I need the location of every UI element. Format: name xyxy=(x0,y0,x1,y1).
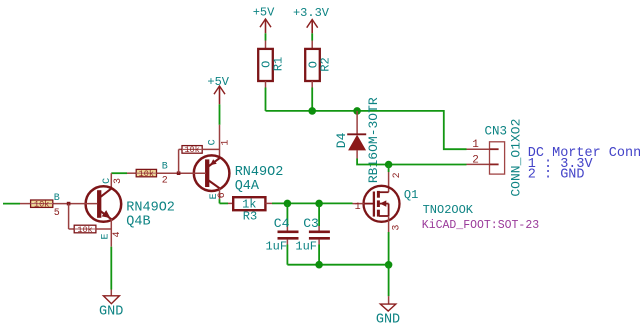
wire base junction up to internal 10k xyxy=(178,149,180,173)
svg-text:1uF: 1uF xyxy=(295,240,317,254)
CN3 pin 2 pad mark xyxy=(490,163,499,165)
junction Q1 source / cap bottom rail xyxy=(385,261,393,269)
CN3 pin 1 lead xyxy=(467,148,490,150)
svg-text:1: 1 xyxy=(472,139,479,151)
power flag +3.3V (above R2) xyxy=(293,6,330,33)
Q4B collector diagonal xyxy=(100,189,112,198)
svg-text:+5V: +5V xyxy=(253,6,275,20)
resistor R2 (value 0) xyxy=(305,49,333,81)
svg-text:R3: R3 xyxy=(243,209,257,223)
Q1 drain internal link xyxy=(379,191,389,193)
Q4A base lead xyxy=(157,172,207,174)
svg-text:3: 3 xyxy=(391,225,402,231)
svg-text:Q4A: Q4A xyxy=(235,179,260,194)
svg-text:2: 2 xyxy=(162,176,168,187)
junction C4 top / gate net xyxy=(284,200,292,208)
ground symbol GND (under Q4B) xyxy=(99,296,123,320)
diode D4 (RB160M-30TR schottky) xyxy=(334,97,381,183)
C3 top pin wire xyxy=(318,203,320,226)
wire +3.3V flag to R2 pin 1 xyxy=(311,33,313,49)
svg-text:1uF: 1uF xyxy=(265,240,287,254)
svg-text:TNO2OOK: TNO2OOK xyxy=(423,203,474,217)
svg-text:1: 1 xyxy=(355,202,361,213)
wire R2 pin 2 down to top rail xyxy=(311,81,313,111)
Q4B body circle xyxy=(86,186,122,222)
svg-text:C: C xyxy=(102,178,113,184)
wire input net at left edge xyxy=(3,203,20,205)
resistor 10k highlighted (Q4A base series) xyxy=(127,169,157,179)
C4 bottom pin wire xyxy=(286,240,288,245)
transistor Q1 (TN0200K N-MOSFET) xyxy=(353,165,540,233)
wire Q1 source to cap rail xyxy=(388,232,390,265)
svg-text:GND: GND xyxy=(376,312,400,327)
svg-text:2: 2 xyxy=(392,172,403,178)
svg-text:5: 5 xyxy=(54,208,60,219)
wire Q1 source junction to GND xyxy=(388,265,390,304)
C4 top pin wire xyxy=(286,203,288,226)
Q4B base bar xyxy=(97,190,101,218)
Q4A upper diagonal with arrow xyxy=(208,158,220,167)
CN3 body box xyxy=(490,142,505,174)
svg-text:CONN_O1XO2: CONN_O1XO2 xyxy=(509,119,524,197)
C3 bottom pin wire xyxy=(318,240,320,245)
svg-text:4: 4 xyxy=(112,231,123,237)
svg-text:10k: 10k xyxy=(184,145,199,155)
note text DC Morter Connector xyxy=(528,146,640,182)
junction C3 bottom / cap rail xyxy=(315,261,323,269)
D4 anode pin xyxy=(356,150,358,159)
C3 plates xyxy=(309,231,330,234)
transistor Q4B (RN4902 unit B) xyxy=(53,173,175,247)
wire Q4B collector to Q4A base 10k xyxy=(111,172,127,174)
Q1 drain pin wire xyxy=(388,165,390,173)
R3 pin 2 stub xyxy=(265,202,272,204)
svg-text:10k: 10k xyxy=(77,225,92,235)
wire internal 10k to emitter pin xyxy=(96,228,111,230)
wire top rail net (R1/R2/D4 to CN3 pin 1) xyxy=(266,111,467,149)
svg-text:+3.3V: +3.3V xyxy=(293,6,330,20)
capacitor C3 (1uF) xyxy=(295,203,330,264)
svg-text:6: 6 xyxy=(217,192,228,198)
Q4A collector pin xyxy=(219,125,221,158)
Q4A body circle xyxy=(194,155,230,191)
resistor R3 (1k) xyxy=(220,197,273,223)
junction C3 top / gate net xyxy=(315,200,323,208)
svg-text:CN3: CN3 xyxy=(485,125,508,139)
svg-text:C4: C4 xyxy=(274,216,290,231)
Q4B emitter pin xyxy=(110,219,112,247)
svg-text:Q1: Q1 xyxy=(404,188,418,202)
Q4B base lead xyxy=(53,203,98,205)
svg-text:R2: R2 xyxy=(319,57,333,71)
junction Q1 drain / pin2 net xyxy=(385,161,393,169)
resistor 10k internal (Q4B base-emitter) xyxy=(74,225,96,233)
wire internal 10k to collector pin xyxy=(202,148,219,150)
D4 cathode bar xyxy=(347,133,366,135)
resistor 10k highlighted (Q4B base series) xyxy=(20,199,53,209)
wire Q4B emitter to GND xyxy=(110,247,112,296)
svg-text:1: 1 xyxy=(221,140,232,146)
svg-text:10k: 10k xyxy=(139,169,154,179)
Q1 channel dashes xyxy=(377,191,380,198)
wire R1 pin 2 to top rail xyxy=(265,81,267,111)
svg-text:10k: 10k xyxy=(34,199,49,209)
Q4B collector pin xyxy=(110,173,112,188)
wire +5V flag to Q4A collector xyxy=(219,104,221,125)
wire Q4A emitter corner to R3 xyxy=(219,199,221,203)
junction D4 cathode / top rail xyxy=(353,107,361,115)
Q1 source pin xyxy=(388,216,390,232)
Q1 source internal link xyxy=(379,215,389,217)
svg-text:B: B xyxy=(54,193,60,204)
svg-text:D4: D4 xyxy=(334,132,349,148)
Q4B emitter diagonal with arrow xyxy=(100,211,112,220)
svg-text:KiCAD_FOOT:SOT-23: KiCAD_FOOT:SOT-23 xyxy=(422,219,539,232)
wire Q4A emitter to R3 pin 1 xyxy=(220,202,229,204)
capacitor C4 (1uF) xyxy=(265,203,298,264)
Q1 gate internal lead xyxy=(364,203,374,205)
D4 body triangle xyxy=(349,136,366,151)
svg-text:RB16OM-3OTR: RB16OM-3OTR xyxy=(366,97,381,183)
power flag +5V (above Q4A) xyxy=(207,75,229,104)
Q1 gate bar xyxy=(373,192,375,217)
svg-text:GND: GND xyxy=(99,305,123,320)
junction Q4A base / internal 10k xyxy=(177,171,181,175)
svg-text:2 : GND: 2 : GND xyxy=(528,168,585,183)
wire gate net (R3 to Q1 gate) xyxy=(272,202,353,204)
wire base junction down to internal 10k xyxy=(68,204,70,229)
junction R2 / top rail xyxy=(308,107,316,115)
wire D4 anode / Q1 drain net to CN3 pin 2 xyxy=(357,159,466,165)
svg-text:C: C xyxy=(207,139,218,145)
power flag +5V (above R1) xyxy=(253,6,275,34)
CN3 pin 2 lead xyxy=(467,163,490,165)
transistor Q4A (RN4902 unit A) xyxy=(157,125,284,200)
svg-text:B: B xyxy=(162,161,168,172)
C4 plates xyxy=(278,231,299,234)
wire cap bottom rail (C4/C3/Q1 source) xyxy=(287,264,388,266)
Q4A emitter pin xyxy=(219,188,221,199)
svg-text:Q4B: Q4B xyxy=(126,214,150,229)
svg-text:3: 3 xyxy=(113,178,124,184)
svg-text:E: E xyxy=(101,233,112,239)
ground symbol GND (under Q1) xyxy=(376,304,400,327)
svg-text:RN49O2: RN49O2 xyxy=(235,165,284,180)
svg-text:C3: C3 xyxy=(303,216,319,231)
resistor R1 (value 0) xyxy=(258,49,286,81)
Q1 body arrow xyxy=(380,203,389,205)
Q1 gate pin xyxy=(353,203,365,205)
resistor 10k internal (Q4A base-emitter) xyxy=(182,148,202,150)
svg-text:RN49O2: RN49O2 xyxy=(126,200,175,215)
junction Q4B base / internal 10k xyxy=(67,202,71,206)
svg-text:2: 2 xyxy=(472,154,479,166)
R3 body xyxy=(233,197,265,210)
Q1 body circle xyxy=(364,186,400,222)
D4 cathode pin xyxy=(356,111,358,134)
Q4A lower diagonal xyxy=(208,180,220,188)
connector CN3 (CONN_01X02) xyxy=(467,119,524,197)
svg-text:R1: R1 xyxy=(272,57,286,71)
Q4A base bar xyxy=(205,159,209,187)
CN3 pin 1 pad mark xyxy=(490,148,499,150)
wire +5V flag to R1 pin 1 xyxy=(265,33,267,49)
